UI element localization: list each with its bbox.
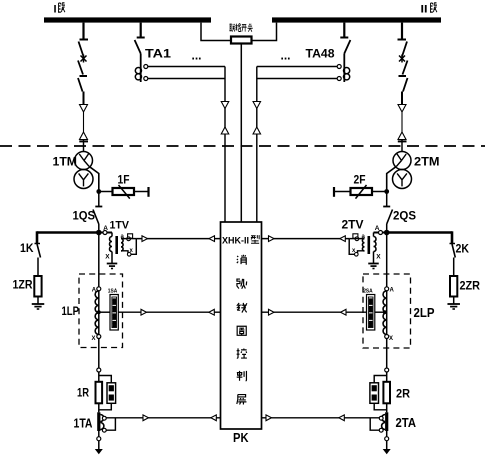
transformer 1TM upper winding xyxy=(75,152,93,170)
resistor 1ZR xyxy=(34,276,41,297)
wire to 2TM xyxy=(401,140,403,153)
coil winding 1LP xyxy=(98,291,100,335)
contact tick xyxy=(80,75,88,77)
wire tie switch to control panel xyxy=(240,44,242,223)
wire TA1 drop from busbar I xyxy=(140,23,142,38)
arrow xyxy=(143,415,149,421)
wire to cable head xyxy=(83,92,85,105)
wire to ground xyxy=(453,297,455,305)
label I段 xyxy=(54,3,65,16)
svg-text:XHK-II: XHK-II xyxy=(222,235,249,246)
fuse 2F xyxy=(351,188,373,195)
secondary loop xyxy=(349,238,364,240)
wire to 2TA xyxy=(386,403,388,412)
svg-text:X: X xyxy=(92,336,96,342)
svg-text:2R: 2R xyxy=(396,387,410,401)
wire feeder-1 drop from busbar I xyxy=(82,23,84,40)
busbar II segment xyxy=(272,17,441,22)
cable connector arrow down xyxy=(398,105,406,113)
tie switch box 联络开关 xyxy=(231,37,252,44)
1TV primary winding xyxy=(111,233,113,237)
dashed box 2LP xyxy=(363,274,411,348)
svg-text:2LP: 2LP xyxy=(414,306,435,320)
tap changer 1SA xyxy=(110,295,118,331)
svg-text:1F: 1F xyxy=(118,175,130,187)
terminal bar xyxy=(147,187,149,197)
arrow xyxy=(341,309,347,315)
wire node A to 1K branch xyxy=(37,231,99,234)
ground 2TV xyxy=(368,263,379,265)
wire node A to 1TV xyxy=(99,232,112,234)
resistor 2ZR xyxy=(450,276,457,297)
wire busbar-I to tie switch xyxy=(201,23,231,41)
coil tap junction xyxy=(383,310,387,314)
wire down to 2K xyxy=(451,231,454,243)
svg-text:2TV: 2TV xyxy=(342,219,364,231)
disconnector blade 2 xyxy=(403,78,408,92)
wire 2TV to panel xyxy=(262,238,350,240)
svg-text:TA1: TA1 xyxy=(145,47,171,61)
2QS blade xyxy=(387,210,393,225)
junction node xyxy=(96,189,101,194)
disconnector blade xyxy=(402,42,407,57)
connector arrow down xyxy=(221,102,229,109)
disconnector contact tick xyxy=(80,39,89,41)
coil winding 2LP xyxy=(386,291,388,335)
wire to 2ZR xyxy=(453,258,455,277)
transformer 2TM lower winding xyxy=(393,170,412,189)
contact tick xyxy=(383,206,390,208)
svg-text:2F: 2F xyxy=(354,175,366,187)
panel vertical text 消弧线圈控制屏 xyxy=(237,255,247,405)
wire 1SA to panel xyxy=(118,311,220,313)
TA1 breaker blade xyxy=(135,40,141,54)
svg-text:...: ... xyxy=(192,48,202,63)
svg-text:2QS: 2QS xyxy=(393,209,416,223)
drawout breaker star mark xyxy=(399,56,405,62)
junction node xyxy=(384,189,389,194)
wire TA1 secondary top to panel drop xyxy=(148,66,225,68)
wire CT drop to panel xyxy=(224,67,226,223)
1SA inner text xyxy=(112,299,116,328)
svg-text:...: ... xyxy=(281,48,291,63)
2SA inner text xyxy=(369,299,373,328)
secondary fuse box xyxy=(128,234,133,238)
disconnector contact tick xyxy=(398,39,407,41)
svg-text:II: II xyxy=(421,4,428,16)
disconnector blade xyxy=(79,42,84,57)
wire TA48 drop from busbar II xyxy=(343,23,345,38)
wire feeder-2 drop from busbar II xyxy=(401,23,403,40)
dashed separator xyxy=(0,145,485,147)
terminal circle xyxy=(385,368,389,372)
wire node A down to coil xyxy=(386,233,388,287)
wire xyxy=(98,192,100,207)
arrow xyxy=(339,415,345,421)
coil terminal X xyxy=(385,335,389,339)
resistor 1R xyxy=(96,382,103,404)
svg-text:X: X xyxy=(389,336,393,342)
tap changer 2SA xyxy=(367,295,375,331)
dashed box 1LP xyxy=(79,274,123,348)
terminal bar xyxy=(333,187,335,197)
1TV secondary winding xyxy=(121,239,123,252)
wire xyxy=(83,112,85,132)
secondary loop xyxy=(370,418,379,430)
wire coil X down xyxy=(98,339,100,369)
svg-text:1TM: 1TM xyxy=(53,157,78,169)
1TV core xyxy=(115,236,118,254)
wire tap to 1SA xyxy=(99,311,110,313)
arrow xyxy=(141,309,147,315)
secondary loop xyxy=(121,238,136,240)
wire 2SA to panel xyxy=(262,311,367,313)
secondary loop xyxy=(106,418,115,430)
svg-text:1R: 1R xyxy=(77,388,90,400)
contact tick xyxy=(137,37,145,39)
arrow xyxy=(142,236,148,242)
parallel contactor branch xyxy=(374,376,387,383)
connector arrow up xyxy=(221,127,229,134)
coil tap junction xyxy=(97,310,101,314)
breaker blade xyxy=(78,61,83,75)
TA48 breaker blade xyxy=(344,40,350,54)
wire xyxy=(343,54,345,83)
fuse 1F xyxy=(113,188,135,195)
coil terminal X xyxy=(97,335,101,339)
wire TA1 secondary bottom to panel drop xyxy=(148,78,225,80)
secondary fuse box xyxy=(353,234,358,238)
label XHK-II型 xyxy=(222,235,259,246)
arrow xyxy=(209,309,215,315)
wire to 1F xyxy=(99,191,113,193)
svg-text:2SA: 2SA xyxy=(363,288,373,294)
wire tap to 2SA xyxy=(375,311,387,313)
coil terminal A xyxy=(385,287,389,291)
cable connector arrow up xyxy=(80,132,88,140)
resistor 2R xyxy=(383,382,390,404)
svg-text:TA48: TA48 xyxy=(306,47,335,61)
cable connector arrow down xyxy=(80,105,88,113)
wire to node A xyxy=(386,224,388,233)
wire xyxy=(140,54,142,83)
wire TA48 secondary bottom to panel drop xyxy=(257,78,337,80)
svg-text:2ZR: 2ZR xyxy=(460,279,481,293)
wire CT48 drop to panel xyxy=(256,67,258,223)
drawout breaker star mark xyxy=(81,56,87,62)
1QS blade xyxy=(93,210,99,225)
wire TA48 secondary top to panel drop xyxy=(257,66,337,68)
wire 2TM to node xyxy=(387,166,397,191)
wire to node A xyxy=(98,224,100,233)
wire to 1TA xyxy=(98,403,100,412)
CT secondary terminals xyxy=(337,65,341,69)
svg-text:2TM: 2TM xyxy=(414,157,440,169)
contact tick xyxy=(340,37,348,39)
wire xyxy=(98,372,100,382)
wire 1TA to panel xyxy=(106,417,221,419)
label 联络开关 xyxy=(229,24,252,32)
2TV secondary winding xyxy=(362,239,364,252)
arrow xyxy=(269,309,275,315)
contactor box xyxy=(107,383,116,404)
svg-text:A: A xyxy=(390,287,395,293)
earth arrow xyxy=(383,449,391,454)
node A junction xyxy=(384,230,390,236)
wire to 1ZR xyxy=(37,258,39,277)
contact tick xyxy=(399,75,407,77)
svg-text:1TV: 1TV xyxy=(110,219,130,231)
svg-text:1SA: 1SA xyxy=(108,288,118,294)
wire down to 1K xyxy=(36,231,39,243)
wire node A down to coil xyxy=(98,233,100,287)
control panel box xyxy=(221,222,262,429)
1K blade xyxy=(35,243,41,245)
arrow xyxy=(211,415,217,421)
transformer 2TM upper winding xyxy=(393,152,411,170)
terminal circle xyxy=(103,231,107,235)
terminal circle xyxy=(379,231,383,235)
disconnector blade 2 xyxy=(78,78,83,92)
CT 1TA primary bar xyxy=(97,412,100,431)
wire 2F to terminal xyxy=(334,191,351,193)
wire to 1TM xyxy=(83,140,85,153)
CT TA48 xyxy=(344,68,350,74)
wire xyxy=(386,372,388,382)
ground xyxy=(447,303,460,305)
CT 2TA primary bar xyxy=(385,412,388,431)
wire 1TV to panel xyxy=(136,238,220,240)
arrow xyxy=(266,415,272,421)
svg-text:I: I xyxy=(54,4,57,16)
2K blade xyxy=(450,243,456,245)
node A junction xyxy=(96,230,102,236)
wire xyxy=(386,192,388,207)
CT 1TA secondary bumps xyxy=(100,415,104,422)
CT 2TA secondary bumps xyxy=(382,415,385,422)
ground 1TV xyxy=(107,263,118,265)
terminal circle xyxy=(97,368,101,372)
wire node A to 2TV xyxy=(374,232,387,234)
ground xyxy=(32,303,45,305)
wire to 2F xyxy=(372,191,387,193)
svg-text:X: X xyxy=(105,254,110,261)
wire busbar-II to tie switch xyxy=(252,23,277,41)
wire node A to 2K branch xyxy=(387,231,452,234)
svg-text:2K: 2K xyxy=(456,242,470,256)
wire to earth xyxy=(98,431,100,437)
coil terminal A xyxy=(97,287,101,291)
svg-text:X: X xyxy=(376,254,381,261)
cable connector arrow up xyxy=(398,132,406,140)
arrow xyxy=(340,236,346,242)
contactor box xyxy=(370,383,379,404)
arrow xyxy=(209,236,215,242)
svg-text:PK: PK xyxy=(233,430,249,445)
breaker blade xyxy=(403,61,408,75)
connector arrow down xyxy=(253,102,260,109)
arrow xyxy=(269,236,275,242)
svg-text:1K: 1K xyxy=(20,241,34,255)
busbar I segment xyxy=(44,17,211,22)
wire to cable head xyxy=(401,92,403,105)
transformer 1TM lower winding xyxy=(74,170,93,189)
secondary terminals xyxy=(102,416,106,420)
secondary terminals xyxy=(379,416,383,420)
wire 2TA to panel xyxy=(262,417,380,419)
svg-text:1TA: 1TA xyxy=(74,416,93,431)
svg-text:2TA: 2TA xyxy=(396,415,417,430)
label II段 xyxy=(421,3,437,16)
connector arrow up xyxy=(253,127,260,134)
earth arrow xyxy=(95,449,103,454)
wire 1F to terminal xyxy=(134,191,149,193)
CT TA1 xyxy=(135,68,141,74)
wire xyxy=(401,112,403,132)
parallel contactor branch xyxy=(99,376,112,383)
wire coil X down xyxy=(386,339,388,369)
wire to earth xyxy=(386,431,388,437)
svg-text:1ZR: 1ZR xyxy=(13,278,33,292)
wire to ground xyxy=(37,297,39,305)
svg-text:1QS: 1QS xyxy=(73,209,96,223)
svg-text:1LP: 1LP xyxy=(62,304,80,318)
2TV core xyxy=(368,236,371,254)
wire 1TM to node xyxy=(89,166,99,191)
contact tick xyxy=(95,206,102,208)
2TV primary winding xyxy=(373,233,375,237)
CT secondary terminals xyxy=(144,65,148,69)
